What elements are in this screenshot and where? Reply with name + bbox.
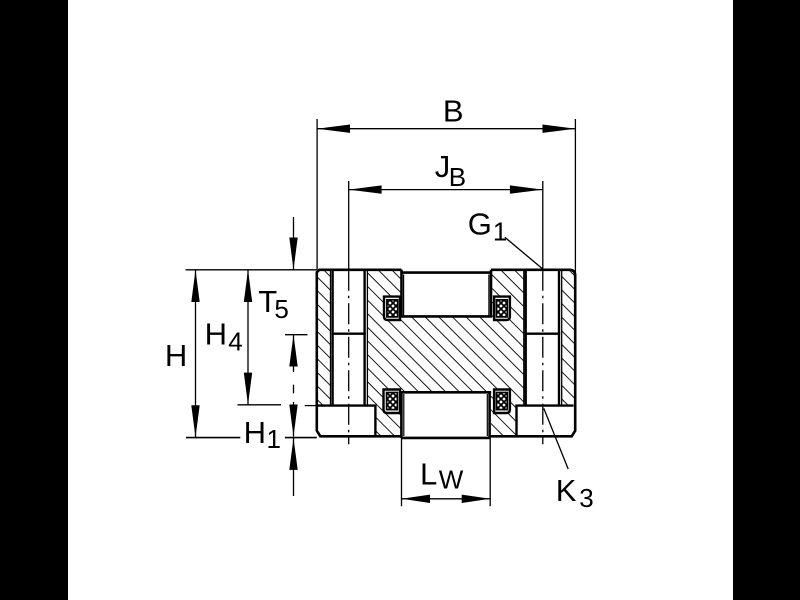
dimension LW line [402, 498, 491, 500]
svg-text:H: H [205, 316, 227, 351]
right base recess top edge [515, 404, 573, 406]
right bolt hole centerline [542, 270, 544, 444]
hatched housing section: right mid band lower [491, 406, 517, 437]
left black pillar bar [0, 0, 68, 600]
hatched housing section: left outer strip [317, 270, 331, 406]
hatched housing section: left mid band upper [367, 270, 401, 406]
dimension B line [317, 128, 575, 130]
T5 bottom reference line [285, 334, 308, 336]
svg-text:B: B [449, 162, 466, 192]
svg-text:G: G [468, 206, 492, 241]
hatched housing section: center band between bores [402, 316, 492, 392]
right bolt hole right hatch boundary thin line [561, 270, 563, 406]
top surface reference extension line [186, 269, 317, 271]
left bolt hole left wall [331, 270, 333, 406]
hatched housing section: left mid band lower [375, 405, 401, 436]
body outline silhouette right part [490, 270, 576, 437]
seal lower-left [384, 390, 401, 414]
right bolt hole hatch boundary thin line [523, 270, 525, 406]
lower bore opening (white window) [401, 392, 489, 438]
dimension LW extension lines [402, 438, 491, 506]
upper bore opening bottom edge [400, 315, 492, 318]
svg-text:4: 4 [228, 326, 242, 356]
dimension H4 line [247, 270, 249, 405]
dimension JB extension lines [349, 181, 543, 270]
upper bore inner thin edges [404, 275, 489, 317]
svg-text:3: 3 [579, 483, 593, 513]
seal upper-left [384, 297, 400, 320]
dimension JB line [349, 189, 543, 191]
body outline silhouette left part [317, 270, 402, 437]
seal lower-right [494, 390, 510, 414]
svg-text:1: 1 [493, 216, 507, 246]
svg-text:W: W [439, 465, 464, 495]
dimension B right arrowhead [543, 125, 576, 133]
leader K3 [544, 408, 568, 469]
dimension T5 dash segment [293, 385, 295, 394]
bottom reference line right piece [285, 437, 317, 439]
dimension H line [195, 270, 197, 438]
right bolt hole left wall [525, 270, 527, 406]
left base recess top edge extension [305, 405, 317, 407]
left bolt hole hatch boundary thin line [330, 270, 332, 406]
svg-text:L: L [420, 457, 437, 492]
dimension T5 line upper segment with outside arrows [293, 217, 295, 270]
left base recess top edge [317, 404, 377, 406]
right bolt hole counterbore depth line (T5 feature) [525, 333, 561, 335]
dimension B left arrowhead [317, 125, 350, 133]
right black pillar bar [733, 0, 800, 600]
right base recess left wall [515, 406, 517, 437]
lower bore opening bottom edge (protruding surface) [401, 437, 489, 440]
dimension H1 outside arrows [293, 402, 295, 437]
H4 bottom reference line [238, 404, 282, 406]
dimension JB left arrowhead [349, 185, 382, 193]
lower bore opening top edge [400, 391, 491, 394]
leader G1 [505, 237, 543, 269]
svg-text:H: H [165, 338, 187, 373]
svg-text:H: H [244, 415, 266, 450]
hatched housing section: right outer strip [562, 270, 576, 406]
hatched housing section: right mid band upper [491, 270, 524, 406]
left base recess right wall [374, 406, 376, 437]
left bolt hole right wall [363, 270, 365, 406]
dimension JB right arrowhead [510, 185, 543, 193]
seal upper-right [494, 297, 510, 320]
svg-text:K: K [556, 473, 577, 508]
left bolt hole counterbore depth line (T5 feature) [331, 333, 365, 335]
lower bore inner thin edges [404, 394, 488, 436]
upper bore opening (white window) [402, 270, 492, 317]
svg-text:1: 1 [267, 424, 281, 454]
right bolt hole right wall [558, 270, 560, 406]
left bolt hole right hatch boundary thin line [366, 270, 368, 406]
svg-text:B: B [443, 94, 464, 129]
dimension B extension lines [317, 119, 575, 276]
upper bore opening top edge [402, 271, 492, 274]
bottom reference line left piece [186, 437, 240, 439]
svg-text:5: 5 [274, 294, 288, 324]
left bolt hole centerline [348, 270, 350, 444]
